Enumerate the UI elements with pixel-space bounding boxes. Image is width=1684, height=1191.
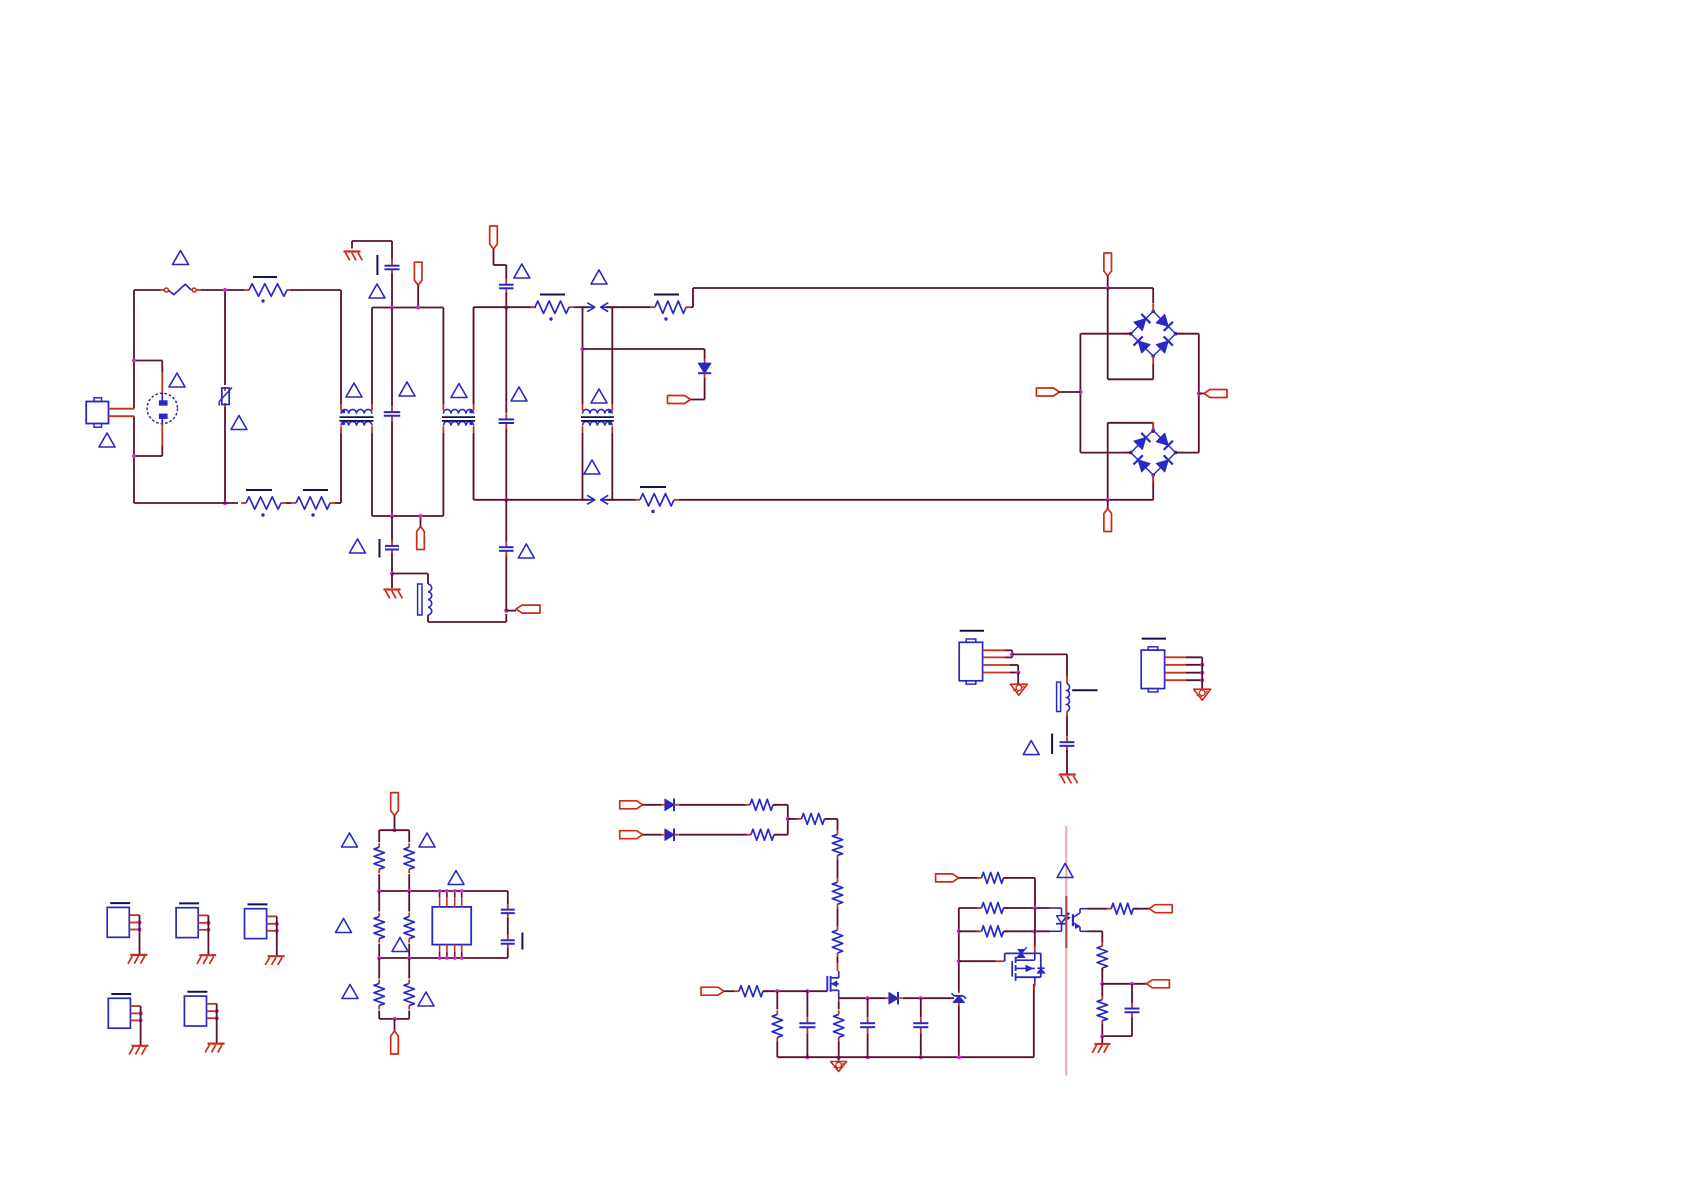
varistor RV1 [224, 387, 226, 391]
chassis ground below J2 [1017, 673, 1019, 685]
wire choke FL2 right bottom lead [473, 433, 475, 500]
wire R16-R17 [837, 859, 839, 878]
wire R26 to divider node [1101, 968, 1103, 984]
wire U1 top pin [461, 891, 463, 897]
resistor R18 [837, 926, 839, 930]
port P11 (ladder bottom) [394, 1019, 396, 1031]
triangle marker on isolation line [1057, 864, 1073, 878]
connector J5 [179, 902, 199, 904]
optocoupler U2 phototransistor [1072, 914, 1074, 926]
wire J2 pin3 [982, 664, 1010, 666]
wire R2 to R3 [286, 502, 291, 504]
optocoupler U2 LED [1050, 907, 1062, 909]
capacitor C12 [920, 998, 922, 1017]
connector J4 [110, 902, 130, 904]
common-mode choke FL3 [583, 409, 613, 413]
wire C4 to block3 top [505, 293, 507, 308]
wire junction to diode D1 [583, 348, 705, 350]
wire D3 to R14 [679, 834, 748, 836]
common-mode choke FL2 [443, 409, 473, 413]
resistor R20 [776, 1010, 778, 1014]
wire C9 to second node [507, 949, 509, 959]
triangle marker near lamp [169, 373, 185, 387]
isolation line red segment at optocoupler [1065, 896, 1067, 948]
triangle marker right of C6 [518, 544, 534, 558]
triangle marker above FL3 [591, 389, 607, 403]
wire ground node to L1 [392, 573, 428, 575]
port P3 (right of L1 path) [504, 609, 508, 613]
diode D3 [665, 829, 674, 840]
wire choke FL2 right top lead [473, 307, 475, 404]
transistor Q2 (depletion FET with protection) [1004, 953, 1006, 961]
wire Q2 drain lead [1034, 908, 1036, 931]
wire bottom line input [134, 502, 238, 504]
resistor R15 [797, 818, 802, 820]
port P5 [668, 396, 691, 404]
port P9 (bottom DC-) [1104, 509, 1112, 532]
resistor R19 [734, 990, 739, 992]
wire bridge BR1 left drop [1107, 288, 1109, 379]
capacitor C13 [1131, 984, 1133, 1003]
wire R14 to junction [774, 834, 788, 836]
earth ground below RC [1101, 1036, 1103, 1044]
wire U1 bottom pin [446, 945, 448, 952]
resistor R1 (fusible) [244, 289, 249, 291]
resistor R27 [1101, 984, 1103, 997]
wire D2 to R13 [679, 804, 747, 806]
wire P15 to R22 [959, 877, 979, 879]
resistor R16 [837, 830, 839, 834]
wire fuse to R1 [201, 289, 244, 291]
port P13 [620, 831, 643, 839]
port P6 (top DC+) [1104, 253, 1112, 276]
wire R20 to rail [776, 1041, 778, 1057]
wire P14 to R19 [724, 990, 735, 992]
connector J2 [960, 630, 984, 632]
wire R3 to choke FL1 [335, 502, 341, 504]
spark gap SG1 [581, 306, 587, 308]
resistor R7 [378, 830, 380, 842]
X-capacitor C2 [391, 308, 393, 407]
diode D2 [665, 799, 674, 810]
wire left sense vertical [958, 908, 960, 992]
common-mode choke FL1 [341, 409, 372, 413]
wire choke FL1 left top lead [340, 290, 342, 404]
fuse F1 [160, 289, 165, 291]
wire block2 bottom [372, 515, 443, 517]
wire J3 pin1 [1165, 656, 1186, 658]
port P14 [701, 987, 724, 995]
wire R19 to gate node [763, 990, 808, 992]
wire Q1 gate [808, 990, 828, 992]
wire BR2 left vertex lead [1080, 452, 1130, 454]
wire C7 to earth [1066, 750, 1068, 774]
diode D1 [704, 359, 706, 363]
triangle marker left of C1 [369, 284, 385, 298]
triangle marker above fuse [173, 251, 189, 265]
Y-capacitor C6 below block3 [505, 500, 507, 542]
wire choke FL3 right bottom lead [611, 433, 613, 500]
resistor R26 [1101, 942, 1103, 946]
wire U2 collector out [1088, 908, 1108, 910]
wire left bus vertical [1079, 334, 1081, 453]
triangle marker above spark gap SG1 [591, 270, 607, 284]
resistor R4 [530, 306, 535, 308]
wire J3 pin4 [1165, 679, 1186, 681]
wire U1 top pin [446, 891, 448, 897]
varistor RV1 vertical wire [224, 290, 226, 385]
resistor R13 [745, 804, 750, 806]
Y-capacitor C4 [505, 265, 507, 279]
port P12 [620, 801, 643, 809]
Y-capacitor C3 below block2 [391, 516, 393, 540]
wire cap C10 branch [806, 991, 808, 1017]
bridge rectifier BR1 [1131, 311, 1153, 333]
wire top line to fuse [134, 289, 160, 291]
resistor R2 [241, 502, 246, 504]
wire long bottom AC run [679, 499, 1108, 501]
wire J3 pin3 [1165, 672, 1186, 674]
wire J3 to chassis ground [1201, 657, 1203, 689]
wire block2 top [372, 307, 443, 309]
wire right bus vertical [1198, 334, 1200, 453]
wire choke FL2 left bottom lead [442, 433, 444, 516]
earth ground bracket above C1 [352, 240, 392, 242]
triangle marker above FL2 [451, 384, 467, 398]
wire long top AC run [693, 287, 1108, 289]
optocoupler U2 coupling arrows [1063, 914, 1068, 917]
wire row3 resistor R24 [959, 930, 979, 932]
wire BR1 left vertex to left bus [1080, 333, 1130, 335]
chassis ground below J3 [1194, 689, 1211, 700]
wire left vertical input [133, 290, 135, 409]
resistor R5 [650, 306, 655, 308]
AC inlet plug J1 [86, 402, 108, 424]
triangle markers ladder [342, 833, 358, 847]
wire choke FL3 left top lead [582, 307, 584, 404]
wire spark gap to R5 [606, 306, 652, 308]
wire U1 top pin [454, 891, 456, 897]
triangle marker above U1 [448, 871, 464, 885]
wire C8 to C9 [507, 918, 509, 935]
triangle marker below plug [99, 433, 115, 447]
wire R18 to Q1 drain [837, 957, 839, 963]
capacitor C10 [806, 1017, 808, 1023]
connector J3 [1142, 638, 1166, 640]
port P2 (bottom of block2) [417, 527, 425, 550]
IC U1 [432, 907, 471, 945]
wire D1 to port P5 [704, 378, 706, 400]
wire Q1 source down [838, 992, 840, 998]
wire Q2 gate lead [959, 960, 996, 962]
neon lamp / interlock DS1 [134, 360, 162, 362]
wire J2 pin2 [982, 656, 1004, 658]
wire C3 to ground node [391, 554, 393, 574]
wire cap branch right of U1 [507, 891, 509, 904]
wire ladder top node [379, 829, 409, 831]
spark gap SG2 [581, 499, 587, 501]
wire bottom rail [777, 1056, 1034, 1058]
wire U1 bottom pin [439, 945, 441, 952]
triangle marker right of C2 [399, 382, 415, 396]
triangle marker above FL1 [346, 383, 362, 397]
wire P12 to D2 [643, 804, 661, 806]
triangle marker left of C7 [1023, 741, 1039, 755]
wire junction to R15 [788, 818, 799, 820]
connector J7 [111, 993, 131, 995]
wire L1 to C-port corner [427, 615, 429, 622]
Y-capacitor C1 [391, 241, 393, 260]
wire ladder mid node [378, 874, 380, 891]
wire bottom AC to bridge BR2 [1107, 423, 1109, 500]
connector J6 [248, 903, 268, 905]
wire ladder bottom node [378, 1011, 380, 1019]
wire R15 to drop chain [825, 818, 838, 820]
wire U1 top pin [439, 891, 441, 897]
resistor R12 [408, 980, 410, 984]
capacitor C7 [1066, 736, 1068, 742]
X-capacitor C5 on mid column [505, 307, 507, 413]
earth ground below C7 [1059, 773, 1076, 775]
wire RC bottom [1102, 1035, 1132, 1037]
diode D4 [889, 993, 898, 1004]
wire BR1 right vertex to right bus [1176, 333, 1199, 335]
wire row2 resistor R23 [959, 907, 979, 909]
port P15 (drain feed) [936, 874, 959, 882]
resistor R10 [408, 913, 410, 917]
chassis ground below rail [838, 1057, 840, 1061]
wire Q2 source down [1034, 977, 1036, 984]
bridge rectifier BR2 [1131, 430, 1153, 452]
wire J2 pin4 [982, 672, 1010, 674]
wire source node to D4 [839, 997, 885, 999]
resistor R6 [635, 499, 640, 501]
wire gate node down [776, 991, 778, 1009]
zener diode D5 [958, 992, 960, 994]
wire divider node to port P17 [1102, 983, 1146, 985]
triangle marker left of C3 [350, 539, 366, 553]
wire R25 to port P16 [1133, 908, 1149, 910]
wire U2 emitter out [1088, 930, 1103, 932]
inductor L1 with core [418, 584, 422, 615]
port P17 [1146, 980, 1169, 988]
wire Q2 drain top [1034, 953, 1036, 960]
wire block3 top left [473, 307, 475, 404]
wire R1 to choke FL1 [291, 289, 341, 291]
triangle marker right of varistor [231, 416, 247, 430]
wire choke FL1 right top lead [371, 308, 373, 405]
transistor Q1 (N-MOSFET) [826, 976, 828, 991]
wire BR2 right vertex lead [1176, 452, 1199, 454]
wire choke FL1 left bottom lead [340, 433, 342, 503]
wire L2 to C7 [1066, 711, 1068, 716]
wire U1 bottom pin [454, 945, 456, 952]
inductor L2 with core [1057, 682, 1061, 711]
port P8 (right) [1199, 393, 1204, 395]
wire ladder second node [378, 944, 380, 958]
wire top AC to bridge BR1 [1108, 287, 1154, 289]
resistor R8 [408, 830, 410, 842]
port P16 [1149, 905, 1172, 913]
port P4 (top Y-cap) [490, 226, 498, 249]
resistor R22 [977, 877, 982, 879]
port P1 (top of block2) [414, 262, 422, 285]
wire J2 pin1 [982, 649, 1004, 651]
wire spark gap SG2 to R6 [606, 499, 638, 501]
triangle marker right of C4 [514, 264, 530, 278]
wire block3 bottom [473, 433, 475, 500]
wire J3 pin2 [1165, 664, 1186, 666]
wire U1 bottom pin [461, 945, 463, 952]
resistor R11 [378, 980, 380, 984]
port P7 (left) [1036, 388, 1059, 396]
connector J8 [187, 991, 207, 993]
wire J2 to inductor L2 [1012, 653, 1067, 655]
earth ground below C3 [391, 574, 393, 589]
wire rail right end to Q2 source [1033, 984, 1035, 1057]
port P10 (ladder top) [391, 793, 399, 816]
wire R4 to spark gap [574, 306, 590, 308]
wire R17-R18 [837, 908, 839, 926]
isolation barrier line [1065, 826, 1067, 1076]
wire choke FL3 left bottom lead [582, 433, 584, 500]
wire choke FL3 right top lead [611, 307, 613, 404]
wire P13 to D3 [643, 834, 661, 836]
wire up from port node toward C5 [505, 555, 507, 611]
wire below Q1 source - resistor R21 [838, 1002, 840, 1009]
resistor R9 [378, 913, 380, 917]
triangle marker above spark gap SG2 [584, 460, 600, 474]
wire R5 to top AC run [691, 306, 693, 308]
wire choke FL1 right bottom lead [371, 433, 373, 516]
resistor R17 [837, 878, 839, 882]
resistor R14 [746, 834, 751, 836]
wire D4 to zener node [903, 997, 955, 999]
resistor R25 [1106, 908, 1111, 910]
wire C1 to block2 top [391, 274, 393, 308]
triangle marker above C5 [511, 387, 527, 401]
wire R13 to junction [773, 804, 788, 806]
capacitor C9 [507, 934, 509, 940]
wire R22 to drain node [1004, 877, 1036, 879]
resistor R3 [291, 502, 296, 504]
capacitor C11 [867, 998, 869, 1017]
capacitor C8 [507, 904, 509, 910]
wire choke FL2 left top lead [442, 308, 444, 405]
